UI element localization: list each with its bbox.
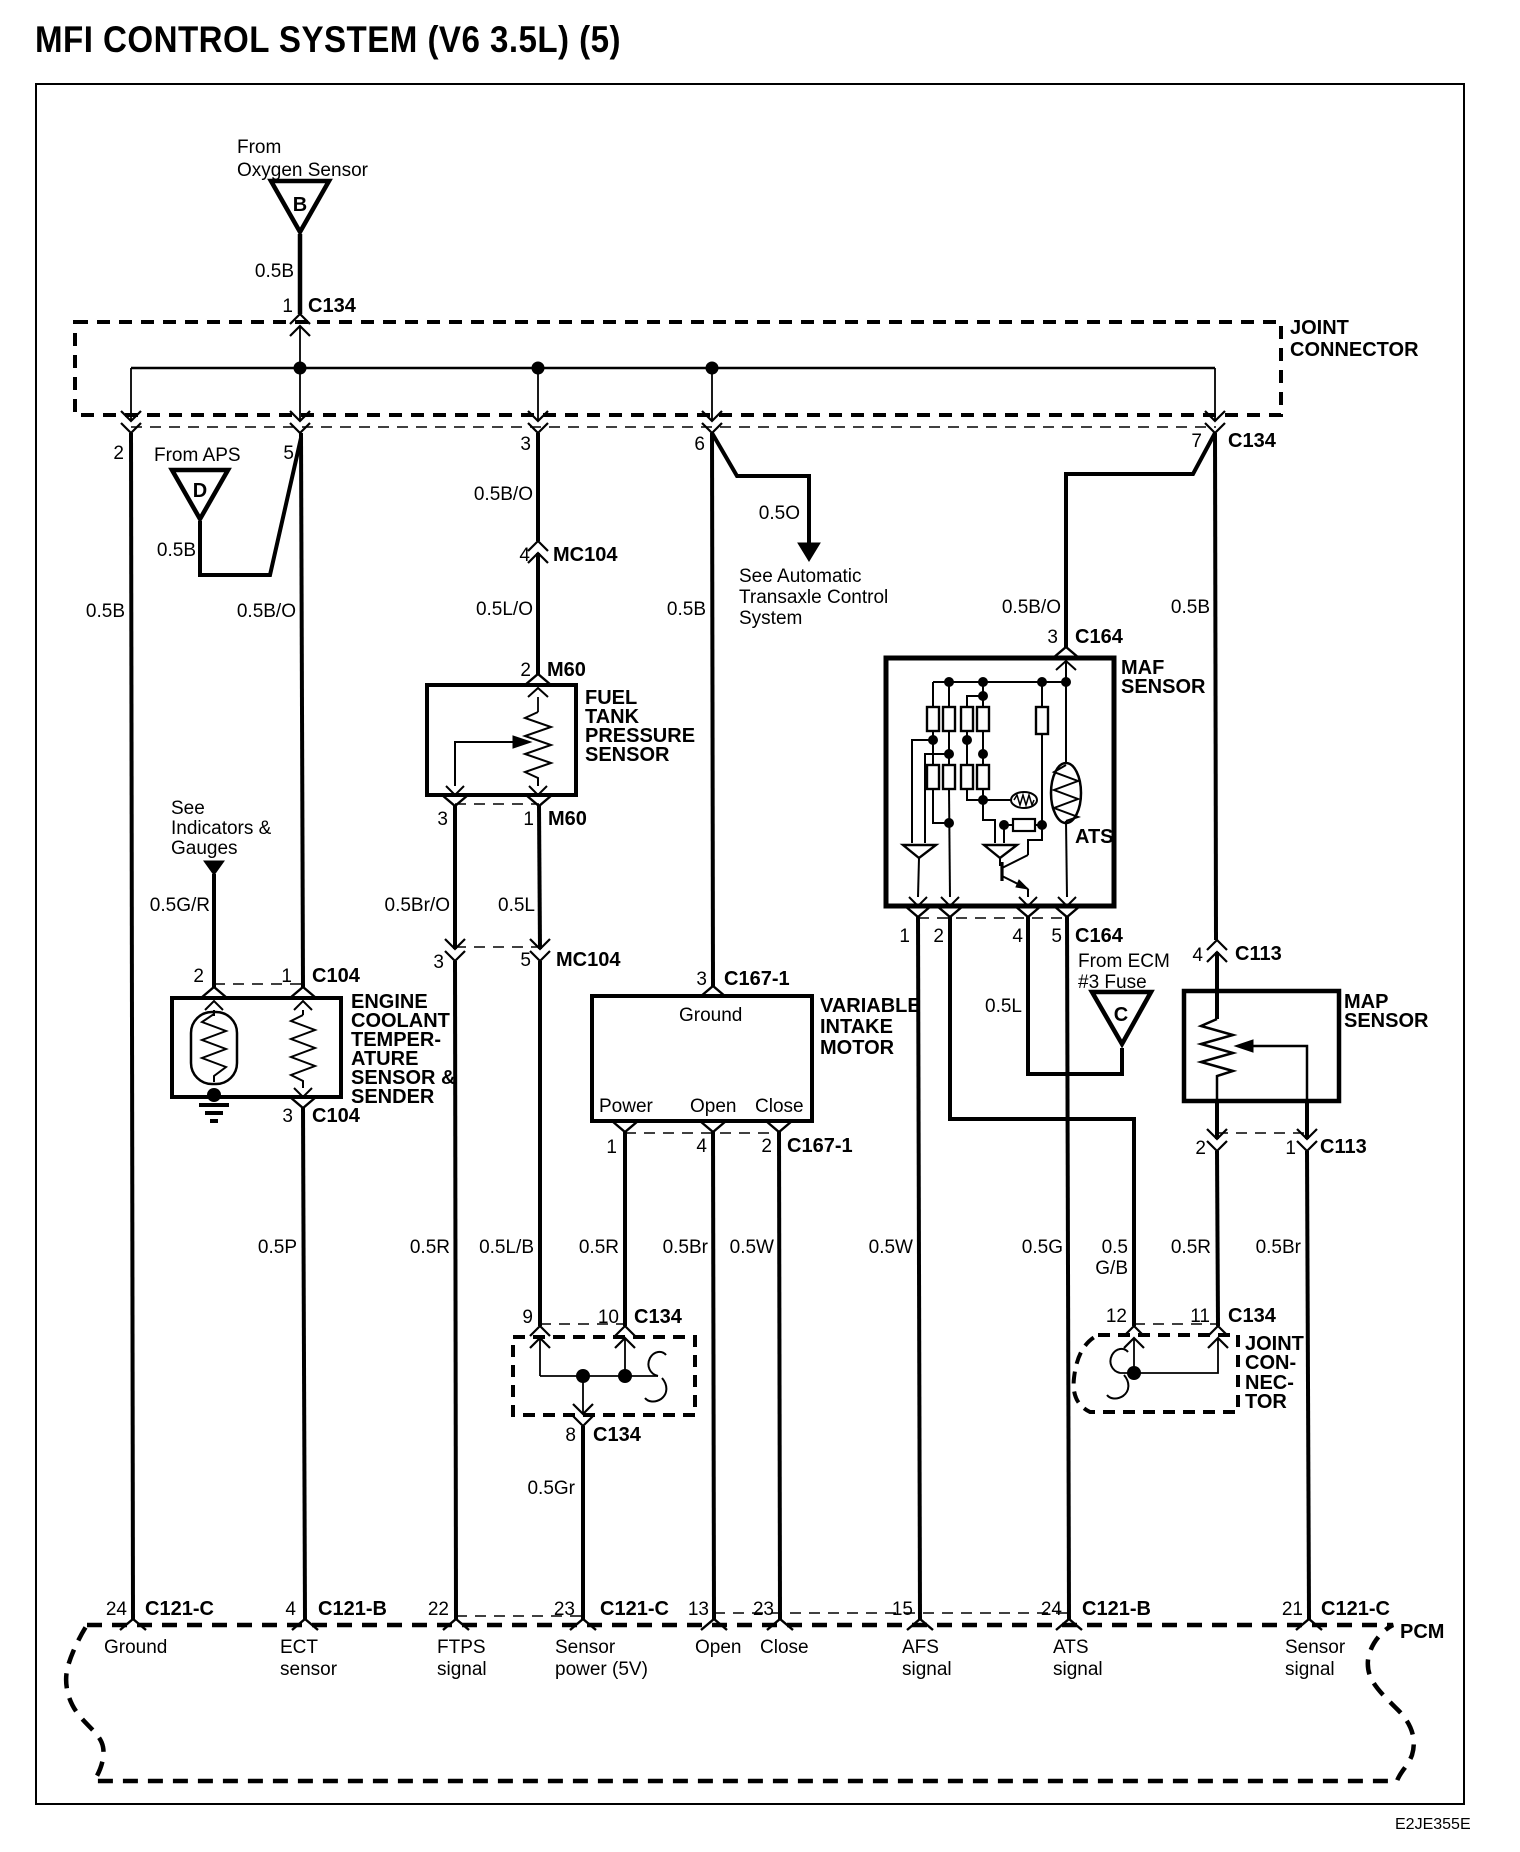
hot film element xyxy=(983,799,1011,801)
svg-text:0.5P: 0.5P xyxy=(258,1237,297,1258)
dashed pin link line C104 xyxy=(214,983,303,985)
svg-text:TOR: TOR xyxy=(1245,1391,1287,1413)
wire bus drop to pin 3 xyxy=(537,368,539,421)
wire 0.5B ground wire W2 xyxy=(131,433,133,1619)
svg-text:0.5O: 0.5O xyxy=(759,503,800,524)
svg-text:sensor: sensor xyxy=(280,1659,338,1680)
svg-text:MOTOR: MOTOR xyxy=(820,1037,895,1059)
wire 0.5B W7 down to C113 xyxy=(1215,433,1216,940)
wire C113 to MAP xyxy=(1215,952,1219,1019)
wire 0.5L MAF pin4 to ECM fuse xyxy=(1028,917,1122,1074)
svg-text:SENSOR: SENSOR xyxy=(1121,676,1206,698)
svg-text:M60: M60 xyxy=(547,659,586,681)
svg-text:2: 2 xyxy=(113,443,124,464)
wire 0.5G/B MAF pin2 to C134 pin 12 xyxy=(950,917,1134,1326)
svg-text:2: 2 xyxy=(1195,1138,1206,1159)
connector C134 pin 2 xyxy=(121,411,141,433)
wire 0.5R VIM power to C134 pin 10 xyxy=(623,1132,627,1326)
svg-text:Transaxle Control: Transaxle Control xyxy=(739,587,888,608)
svg-text:MFI CONTROL SYSTEM (V6 3.5L) (: MFI CONTROL SYSTEM (V6 3.5L) (5) xyxy=(35,19,621,60)
svg-text:3: 3 xyxy=(433,952,444,973)
svg-text:0.5L/O: 0.5L/O xyxy=(476,599,533,620)
MAF sensor box xyxy=(886,658,1114,906)
svg-text:C134: C134 xyxy=(1228,430,1277,452)
dashed pin link line C164 xyxy=(918,917,1067,919)
wire 0.5G/R to ECT pin 2 xyxy=(212,874,216,987)
svg-text:signal: signal xyxy=(902,1659,952,1680)
svg-text:0.5B/O: 0.5B/O xyxy=(1002,597,1061,618)
svg-text:5: 5 xyxy=(283,443,294,464)
resistor R8 xyxy=(961,765,973,789)
resistor R7 xyxy=(943,765,955,789)
svg-text:C164: C164 xyxy=(1075,925,1124,947)
svg-text:0.5B: 0.5B xyxy=(86,601,125,622)
joint bus left xyxy=(539,1338,541,1376)
svg-text:ATS: ATS xyxy=(1053,1637,1089,1658)
connector C113 pin 2 xyxy=(1215,1101,1219,1139)
connector C164 pin 5 xyxy=(1058,897,1076,906)
svg-text:C134: C134 xyxy=(308,295,357,317)
joint bus right xyxy=(1133,1338,1135,1373)
wire 0.5B from D joining pin 5 wire xyxy=(200,438,301,575)
bus wire inside joint connector xyxy=(131,367,1215,370)
thermistor in ECT sensor xyxy=(213,1010,215,1016)
svg-text:C121-B: C121-B xyxy=(318,1598,387,1620)
off-page connector triangle C xyxy=(1092,992,1151,1044)
svg-text:4: 4 xyxy=(1012,926,1023,947)
svg-text:SENSOR: SENSOR xyxy=(1344,1010,1429,1032)
resistor R5 xyxy=(1041,682,1043,707)
svg-text:C164: C164 xyxy=(1075,626,1124,648)
wire 0.5G ATS signal to PCM 24 xyxy=(1067,917,1069,1619)
svg-text:1: 1 xyxy=(606,1137,617,1158)
wire branch pin7 to MAF 0.5B/O xyxy=(1066,433,1215,647)
svg-text:Sensor: Sensor xyxy=(1285,1637,1346,1658)
svg-text:B: B xyxy=(293,194,307,216)
svg-text:signal: signal xyxy=(437,1659,487,1680)
svg-text:Ground: Ground xyxy=(679,1005,742,1026)
svg-text:24: 24 xyxy=(106,1599,128,1620)
dashed pin link line C113 xyxy=(1217,1132,1307,1134)
svg-text:0.5W: 0.5W xyxy=(730,1237,774,1258)
svg-text:C167-1: C167-1 xyxy=(724,968,790,990)
svg-text:3: 3 xyxy=(1047,627,1058,648)
svg-text:C104: C104 xyxy=(312,965,361,987)
svg-text:0.5R: 0.5R xyxy=(579,1237,619,1258)
resistor R6 xyxy=(927,765,939,789)
svg-text:0.5Br: 0.5Br xyxy=(1256,1237,1302,1258)
svg-text:1: 1 xyxy=(523,809,534,830)
wire 0.5B/O W3 to MC104 xyxy=(536,433,540,541)
off-page connector triangle D xyxy=(172,470,228,519)
svg-text:CON-: CON- xyxy=(1245,1352,1296,1374)
svg-text:15: 15 xyxy=(892,1599,913,1620)
svg-text:8: 8 xyxy=(565,1425,576,1446)
small resistor horizontal xyxy=(999,820,1009,830)
svg-text:4: 4 xyxy=(285,1599,296,1620)
svg-text:Open: Open xyxy=(690,1096,736,1117)
FTPS resistor xyxy=(537,697,539,712)
svg-text:3: 3 xyxy=(696,969,707,990)
resistor R3 xyxy=(961,707,973,731)
wires below R6 R7 xyxy=(933,789,949,823)
svg-text:24: 24 xyxy=(1041,1599,1063,1620)
svg-text:C121-B: C121-B xyxy=(1082,1598,1151,1620)
connector C134 pin 7 xyxy=(1205,411,1225,433)
dashed pin link line PCM 13-24 xyxy=(714,1612,1069,1614)
svg-text:0.5Br: 0.5Br xyxy=(663,1237,709,1258)
svg-text:INTAKE: INTAKE xyxy=(820,1016,893,1038)
svg-text:power (5V): power (5V) xyxy=(555,1659,648,1680)
wire 0.5Br VIM open to PCM 13 xyxy=(713,1132,714,1619)
svg-text:0.5B: 0.5B xyxy=(157,540,196,561)
svg-text:0.5: 0.5 xyxy=(1102,1237,1128,1258)
svg-text:signal: signal xyxy=(1285,1659,1335,1680)
svg-text:0.5B: 0.5B xyxy=(255,261,294,282)
svg-text:1: 1 xyxy=(1285,1138,1296,1159)
triangle T2 xyxy=(984,845,1017,858)
wire from pin 1 to bus xyxy=(299,326,301,368)
svg-text:From ECM: From ECM xyxy=(1078,951,1170,972)
svg-text:M60: M60 xyxy=(548,808,587,830)
wire bus right drop to pin 7 xyxy=(1214,368,1216,421)
connector M60 pin 1 xyxy=(529,786,547,795)
connector C167-1 pin 4 xyxy=(700,1121,726,1132)
svg-text:ATS: ATS xyxy=(1075,826,1114,848)
svg-text:MC104: MC104 xyxy=(556,949,621,971)
resistor R9 xyxy=(977,765,989,789)
svg-text:2: 2 xyxy=(933,926,944,947)
wire 0.5O branch to transaxle xyxy=(712,433,809,543)
connector C134 pin 6 xyxy=(702,411,722,433)
svg-text:Open: Open xyxy=(695,1637,741,1658)
svg-text:C113: C113 xyxy=(1320,1136,1367,1158)
wire 0.5L FTPS pin1 down xyxy=(539,806,540,949)
arrow to indicators xyxy=(204,861,224,875)
MAF mid junctions xyxy=(932,731,934,765)
svg-text:Gauges: Gauges xyxy=(171,838,238,859)
svg-text:VARIABLE: VARIABLE xyxy=(820,995,921,1017)
wire 0.5B/O W5 down to ECT xyxy=(301,433,303,987)
resistor R4 xyxy=(982,682,984,707)
connector C134 pin 5 xyxy=(290,411,310,433)
svg-text:See Automatic: See Automatic xyxy=(739,566,862,587)
connector C167-1 pin 2 xyxy=(766,1121,792,1132)
dashed pin link line PCM 22-23 xyxy=(456,1615,583,1617)
svg-text:Ground: Ground xyxy=(104,1637,167,1658)
resistor R1 xyxy=(932,682,934,707)
svg-text:2: 2 xyxy=(520,660,531,681)
svg-text:1: 1 xyxy=(899,926,910,947)
wire 0.5Br/O FTPS pin3 down xyxy=(453,806,457,949)
svg-text:Power: Power xyxy=(599,1096,654,1117)
joint bus curl xyxy=(645,1352,666,1402)
node junction dot at pin 6 branch xyxy=(706,362,719,375)
svg-text:1: 1 xyxy=(282,296,293,317)
svg-text:5: 5 xyxy=(1051,926,1062,947)
svg-text:3: 3 xyxy=(520,434,531,455)
svg-text:9: 9 xyxy=(522,1307,533,1328)
svg-text:C167-1: C167-1 xyxy=(787,1135,853,1157)
svg-text:C: C xyxy=(1114,1004,1128,1026)
connector M60 pin 3 xyxy=(446,786,464,795)
ATS thermistor xyxy=(1065,682,1067,764)
dashed pin link line C134 12-11 xyxy=(1134,1323,1218,1325)
node junction dot at pin 3 branch xyxy=(532,362,545,375)
dashed pin link line MC104 xyxy=(455,946,540,948)
wire 0.5L/B to C134 pin 9 xyxy=(538,961,542,1326)
joint bus curl right xyxy=(1107,1349,1128,1399)
svg-text:C104: C104 xyxy=(312,1105,361,1127)
connector C164 pin 2 xyxy=(941,897,959,906)
wire R9 to triangle T2 xyxy=(983,800,995,843)
joint connector box left xyxy=(513,1337,695,1415)
dashed pin link line C134 9-10 xyxy=(540,1323,625,1325)
svg-text:C121-C: C121-C xyxy=(600,1598,669,1620)
MAF internal bus 2 xyxy=(967,696,983,707)
svg-text:7: 7 xyxy=(1191,431,1202,452)
svg-text:4: 4 xyxy=(696,1136,707,1157)
off-page connector triangle B xyxy=(271,181,329,232)
svg-text:5: 5 xyxy=(520,950,531,971)
svg-text:C134: C134 xyxy=(1228,1305,1277,1327)
svg-text:C121-C: C121-C xyxy=(145,1598,214,1620)
svg-text:2: 2 xyxy=(193,966,204,987)
svg-text:JOINT: JOINT xyxy=(1290,317,1349,339)
joint connector box right xyxy=(1074,1335,1238,1412)
resistor R2 xyxy=(948,682,950,707)
sender resistor in ECT sensor xyxy=(302,1010,304,1015)
MAP wiper arrow xyxy=(1253,1046,1307,1101)
svg-text:3: 3 xyxy=(437,809,448,830)
FTPS wiper arrow xyxy=(455,742,513,786)
svg-text:FTPS: FTPS xyxy=(437,1637,486,1658)
svg-text:Sensor: Sensor xyxy=(555,1637,616,1658)
fuel tank pressure sensor box xyxy=(427,685,576,795)
svg-text:0.5Gr: 0.5Gr xyxy=(527,1478,575,1499)
joint connector dashed box xyxy=(75,322,1281,415)
svg-text:22: 22 xyxy=(428,1599,449,1620)
svg-text:SENSOR: SENSOR xyxy=(585,744,670,766)
MAP resistor xyxy=(1201,1019,1233,1101)
svg-text:0.5B: 0.5B xyxy=(667,599,706,620)
node dot thermistor to ground xyxy=(207,1088,221,1102)
wire 0.5R FTPS signal to PCM 22 xyxy=(455,961,456,1619)
triangle T1 xyxy=(903,845,936,858)
svg-text:From: From xyxy=(237,137,281,158)
svg-text:0.5L: 0.5L xyxy=(985,996,1022,1017)
wire bus left drop to pin 2 xyxy=(130,368,132,421)
svg-text:C134: C134 xyxy=(593,1424,642,1446)
ground xyxy=(199,1103,229,1107)
wire 0.5R MAP to C134 pin 11 xyxy=(1217,1151,1218,1326)
svg-text:0.5B/O: 0.5B/O xyxy=(237,601,296,622)
svg-text:2: 2 xyxy=(761,1136,772,1157)
svg-text:signal: signal xyxy=(1053,1659,1103,1680)
wire to left triangle xyxy=(912,740,933,843)
svg-text:E2JE355E: E2JE355E xyxy=(1395,1816,1471,1833)
svg-text:0.5L: 0.5L xyxy=(498,895,535,916)
wire 0.5P ECT to PCM pin 4 xyxy=(303,1108,305,1619)
svg-text:System: System xyxy=(739,608,802,629)
dashed pin link line C167-1 xyxy=(625,1132,779,1134)
svg-text:PCM: PCM xyxy=(1400,1621,1444,1643)
wire 0.5B from B to C134 pin 1 xyxy=(298,234,303,314)
connector C164 pin 1 xyxy=(909,897,927,906)
svg-text:23: 23 xyxy=(554,1599,575,1620)
connector C113 pin 1 xyxy=(1305,1101,1309,1139)
svg-text:6: 6 xyxy=(694,434,705,455)
dashed pin link line M60 xyxy=(455,803,539,805)
connector C164 pin 4 xyxy=(1019,897,1037,906)
transistor Q1 xyxy=(999,858,1001,866)
svg-text:C134: C134 xyxy=(634,1306,683,1328)
svg-text:CONNECTOR: CONNECTOR xyxy=(1290,339,1419,361)
svg-text:13: 13 xyxy=(688,1599,709,1620)
dashed pin link line C134 xyxy=(131,426,1216,428)
connector C134 pin 8 xyxy=(582,1376,584,1414)
wire 0.5W VIM close to PCM 23 xyxy=(779,1132,780,1619)
svg-text:C121-C: C121-C xyxy=(1321,1598,1390,1620)
svg-text:12: 12 xyxy=(1106,1306,1127,1327)
svg-text:3: 3 xyxy=(282,1106,293,1127)
svg-text:4: 4 xyxy=(1192,945,1203,966)
svg-text:See: See xyxy=(171,798,205,819)
svg-text:Oxygen Sensor: Oxygen Sensor xyxy=(237,160,369,181)
svg-text:0.5R: 0.5R xyxy=(1171,1237,1211,1258)
ECT sensor box xyxy=(172,998,341,1097)
wire 0.5Gr to PCM 23 xyxy=(581,1426,585,1619)
wire 0.5L/O to FTPS xyxy=(536,553,540,674)
wire 0.5B W6 to VIM xyxy=(712,433,713,986)
svg-text:MC104: MC104 xyxy=(553,544,618,566)
svg-text:0.5B/O: 0.5B/O xyxy=(474,484,533,505)
PCM dashed box xyxy=(66,1625,1414,1781)
svg-text:0.5W: 0.5W xyxy=(869,1237,913,1258)
svg-text:Close: Close xyxy=(755,1096,804,1117)
svg-text:0.5G/R: 0.5G/R xyxy=(150,895,210,916)
variable intake motor box xyxy=(592,996,812,1121)
svg-text:0.5R: 0.5R xyxy=(410,1237,450,1258)
wire 0.5Br MAP to PCM 21 xyxy=(1307,1151,1309,1619)
svg-text:0.5B: 0.5B xyxy=(1171,597,1210,618)
wire bus drop to pin 6 xyxy=(711,368,713,421)
svg-text:G/B: G/B xyxy=(1095,1258,1128,1279)
MAP sensor box xyxy=(1184,991,1339,1101)
node junction dot at pin 5 branch xyxy=(294,362,307,375)
svg-text:10: 10 xyxy=(598,1307,619,1328)
svg-text:From APS: From APS xyxy=(154,445,241,466)
svg-text:AFS: AFS xyxy=(902,1637,939,1658)
MAF internal bus xyxy=(933,681,1066,683)
svg-text:23: 23 xyxy=(753,1599,774,1620)
svg-text:D: D xyxy=(193,480,207,502)
svg-text:0.5Br/O: 0.5Br/O xyxy=(385,895,450,916)
wire bus drop to pin 5 xyxy=(299,368,301,421)
svg-text:Close: Close xyxy=(760,1637,809,1658)
svg-text:ECT: ECT xyxy=(280,1637,318,1658)
connector C167-1 pin 1 xyxy=(612,1121,638,1132)
svg-text:0.5G: 0.5G xyxy=(1022,1237,1063,1258)
node dots on MAF bus xyxy=(944,677,954,687)
wire 0.5W AFS signal to PCM 15 xyxy=(918,917,920,1619)
svg-text:C113: C113 xyxy=(1235,943,1282,965)
svg-text:21: 21 xyxy=(1282,1599,1303,1620)
connector C104 pin 3 xyxy=(294,1088,312,1097)
wires below R8 R9 to oval element xyxy=(967,789,983,800)
svg-text:0.5L/B: 0.5L/B xyxy=(479,1237,534,1258)
connector C134 pin 3 xyxy=(528,411,548,433)
svg-text:SENDER: SENDER xyxy=(351,1086,435,1108)
svg-text:Indicators &: Indicators & xyxy=(171,818,272,839)
